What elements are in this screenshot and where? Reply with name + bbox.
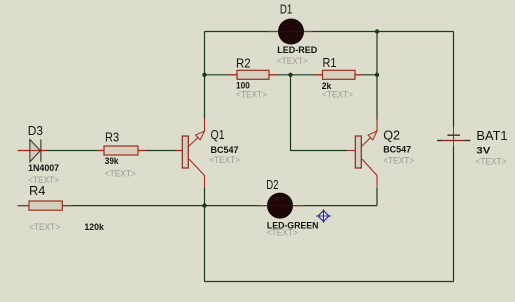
wire left rail upper — [204, 32, 206, 119]
wire D2 row — [205, 205, 378, 207]
origin marker (blue) — [316, 209, 330, 222]
wire right rail upper — [453, 32, 455, 128]
wire R2-R1 junction to Q2 base — [291, 75, 348, 151]
wire left rail lower — [204, 188, 206, 282]
battery BAT1 — [437, 127, 471, 147]
junction node R1 right — [375, 73, 379, 77]
pin D2 right — [292, 205, 303, 207]
svg-text:LED-RED: LED-RED — [277, 45, 317, 55]
svg-text:120k: 120k — [84, 222, 104, 232]
wire D3-R3-Q1 base row — [18, 150, 183, 152]
svg-text:<TEXT>: <TEXT> — [105, 169, 136, 179]
svg-text:39k: 39k — [105, 156, 119, 166]
svg-text:D3: D3 — [28, 123, 43, 138]
wire R4 row — [18, 205, 205, 207]
svg-text:3V: 3V — [476, 146, 490, 156]
pin D3 right — [41, 150, 47, 152]
resistor R4 — [29, 201, 62, 210]
resistor R3 — [104, 146, 138, 155]
wire bottom rail — [205, 281, 454, 283]
resistor R2 — [237, 70, 269, 79]
svg-text:Q1: Q1 — [211, 127, 225, 142]
svg-text:Q2: Q2 — [383, 127, 400, 142]
svg-text:<TEXT>: <TEXT> — [322, 89, 353, 99]
svg-text:D1: D1 — [280, 1, 292, 16]
svg-text:<TEXT>: <TEXT> — [383, 155, 414, 165]
LED D2 (LED-GREEN) — [267, 193, 293, 219]
pin R2 right — [269, 74, 278, 76]
svg-text:D2: D2 — [266, 177, 278, 192]
junction node D2 row left — [202, 203, 206, 207]
svg-text:1N4007: 1N4007 — [28, 163, 59, 173]
red pin leads — [18, 32, 362, 206]
pin R3 right — [138, 150, 146, 152]
svg-text:<TEXT>: <TEXT> — [267, 228, 298, 238]
svg-text:R3: R3 — [105, 130, 119, 145]
junction node R2 left — [202, 73, 206, 77]
pin Q2 base — [348, 150, 356, 152]
resistor R1 — [323, 70, 356, 79]
wire top rail — [205, 31, 454, 33]
transistor Q2 BC547 — [355, 119, 377, 189]
pin R2 left — [228, 74, 237, 76]
pin R4 left — [18, 205, 30, 207]
pin D1 left — [269, 31, 280, 33]
junction node top rail x377 — [375, 29, 379, 33]
svg-text:R4: R4 — [29, 183, 45, 198]
svg-text:R2: R2 — [236, 55, 251, 70]
LED D1 (LED-RED) — [278, 19, 304, 45]
svg-text:BAT1: BAT1 — [476, 128, 507, 143]
pin R4 right — [62, 205, 71, 207]
transistor Q1 BC547 — [182, 119, 204, 189]
svg-text:R1: R1 — [323, 55, 337, 70]
svg-text:<TEXT>: <TEXT> — [209, 155, 240, 165]
svg-text:<TEXT>: <TEXT> — [29, 222, 60, 232]
pin R3 left — [97, 150, 104, 152]
pin D1 right — [303, 31, 313, 33]
wire R2-R1 row — [205, 74, 378, 76]
svg-text:<TEXT>: <TEXT> — [236, 89, 267, 99]
pin D2 left — [258, 205, 269, 207]
pin R1 right — [355, 74, 362, 76]
svg-text:BC547: BC547 — [211, 145, 239, 155]
wire right rail lower — [453, 147, 455, 282]
pin D3 left — [18, 150, 31, 152]
wire R1 junction to Q2 emitter — [376, 75, 378, 121]
wire R1 to top rail vertical — [376, 32, 378, 75]
pin R1 left — [313, 74, 323, 76]
diode D3 1N4007 — [30, 140, 41, 162]
svg-text:<TEXT>: <TEXT> — [277, 56, 308, 66]
svg-text:BC547: BC547 — [383, 145, 411, 155]
svg-text:<TEXT>: <TEXT> — [476, 156, 507, 166]
pin Q1 base — [175, 150, 182, 152]
wire Q2 collector to D2 row — [376, 188, 378, 206]
junction node R2-R1 — [288, 73, 292, 77]
